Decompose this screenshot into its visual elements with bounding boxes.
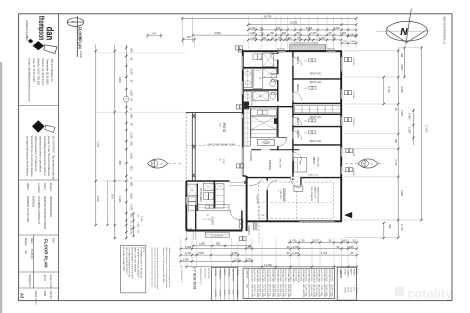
- wall bed4 master: [293, 144, 341, 146]
- svg-text:4,700: 4,700: [321, 252, 328, 255]
- svg-text:NEW RESIDENCE: NEW RESIDENCE: [49, 196, 52, 217]
- svg-text:1,790: 1,790: [290, 240, 297, 243]
- svg-text:A: A: [152, 162, 154, 166]
- wall dining kitchen: [251, 149, 300, 151]
- svg-text:Dimensions preferred to scale.: Dimensions preferred to scale. Builder t…: [156, 248, 159, 290]
- svg-text:P.O. W.M.: P.O. W.M.: [203, 219, 212, 221]
- wall wet rooms div 1: [243, 67, 278, 69]
- right chain line E: [421, 48, 423, 221]
- svg-text:4,360: 4,360: [96, 196, 98, 202]
- svg-text:@ A3: @ A3: [43, 275, 46, 282]
- svg-text:SHOWER HEADS, TOILETS & TAPS: SHOWER HEADS, TOILETS & TAPS: [131, 247, 134, 279]
- svg-text:700: 700: [270, 32, 275, 35]
- wall bed3 bed4: [293, 126, 341, 128]
- svg-text:900: 900: [282, 32, 287, 35]
- bottom extension lines: [180, 238, 182, 268]
- svg-text:ALUM SLIDING: ALUM SLIDING: [289, 269, 292, 282]
- wet room door arcs: [271, 54, 278, 61]
- exterior wall top: [242, 50, 342, 52]
- svg-text:Scale: 1:100: Scale: 1:100: [49, 275, 52, 290]
- titleblock logo big diamond: [33, 41, 44, 50]
- titleblock divider 2: [19, 179, 59, 181]
- svg-text:KITCHEN: KITCHEN: [262, 143, 271, 145]
- svg-text:P.O.: P.O.: [219, 123, 221, 127]
- note box: [121, 246, 146, 293]
- wing interior wall: [213, 181, 215, 209]
- svg-text:SPLIT A/C: SPLIT A/C: [316, 157, 319, 168]
- wing west wall window: [185, 197, 187, 205]
- svg-text:Phone: 07 4724 1214: Phone: 07 4724 1214: [41, 59, 45, 86]
- patio open edge double line: [191, 112, 193, 181]
- svg-text:2,090: 2,090: [199, 244, 205, 246]
- svg-text:12.72: 12.72: [223, 290, 225, 296]
- svg-text:ALUM SLIDING: ALUM SLIDING: [299, 269, 302, 282]
- svg-text:PORCH: PORCH: [352, 269, 354, 277]
- svg-text:130.35: 130.35: [344, 287, 346, 294]
- svg-text:1,190: 1,190: [130, 68, 133, 75]
- svg-text:(C) COPYRIGHT: This drawing re: (C) COPYRIGHT: This drawing remains the: [52, 136, 55, 181]
- door arc garage entry: [267, 180, 277, 190]
- svg-text:1506 SD OBS: 1506 SD OBS: [261, 269, 263, 283]
- svg-text:Project:: Project:: [49, 183, 52, 192]
- svg-text:reproduced in whole or part wi: reproduced in whole or part without: [38, 136, 41, 172]
- svg-text:GARAGE: GARAGE: [219, 269, 222, 279]
- svg-text:16.08.19: 16.08.19: [30, 249, 33, 259]
- svg-text:2,370: 2,370: [310, 32, 317, 35]
- svg-text:2,950: 2,950: [400, 110, 403, 117]
- house corner bump: [239, 49, 243, 52]
- svg-text:ENTRY: ENTRY: [255, 196, 259, 205]
- svg-text:1,430: 1,430: [118, 196, 121, 203]
- svg-text:ALFRESCO: ALFRESCO: [232, 269, 235, 281]
- svg-text:WIND CLASSIFICATION: C2: WIND CLASSIFICATION: C2: [443, 17, 447, 45]
- svg-text:900: 900: [262, 37, 267, 40]
- svg-text:3,930: 3,930: [214, 32, 221, 35]
- window schedule table: [243, 268, 334, 298]
- svg-text:1,000: 1,000: [350, 41, 356, 43]
- left chain bubble 13: [123, 96, 129, 102]
- svg-text:N: N: [400, 27, 408, 38]
- entry paving lines: [230, 182, 247, 184]
- door arc hall to living: [278, 138, 287, 147]
- svg-text:184.16: 184.16: [355, 287, 357, 294]
- svg-text:940: 940: [130, 48, 133, 53]
- svg-text:dimensions on site prior to co: dimensions on site prior to construction…: [153, 248, 156, 289]
- bedroom door arcs: [293, 57, 302, 65]
- titleblock divider 3: [19, 234, 59, 236]
- robe wardrobe band: [294, 106, 340, 113]
- svg-text:FLOORPLAN: FLOORPLAN: [78, 27, 83, 49]
- patio bottom wall: [186, 180, 229, 182]
- svg-text:A: A: [363, 162, 365, 166]
- svg-text:ALUM SLIDING: ALUM SLIDING: [274, 269, 277, 282]
- svg-text:6,100: 6,100: [293, 252, 300, 255]
- svg-text:1,370: 1,370: [187, 228, 193, 230]
- svg-text:2,600: 2,600: [197, 252, 204, 255]
- wall bed2 robes: [293, 102, 341, 104]
- svg-text:National Construction Code & r: National Construction Code & relevant Au…: [165, 248, 168, 289]
- top dimension chains: [182, 18, 356, 20]
- svg-text:ALUM SLIDING: ALUM SLIDING: [315, 269, 318, 282]
- patio outer dashed line: [185, 112, 187, 180]
- titleblock divider sub: [19, 271, 59, 273]
- svg-text:1:100: 1:100: [79, 50, 83, 58]
- svg-text:Standards. Termite protection: Standards. Termite protection to AS 3660…: [162, 248, 165, 285]
- svg-text:1: 1: [71, 21, 75, 23]
- svg-text:A3: A3: [20, 293, 25, 299]
- left chain overall: [95, 45, 97, 226]
- svg-text:any discrepancies to the desig: any discrepancies to the designer before…: [150, 248, 153, 288]
- wall wet rooms right: [277, 51, 279, 150]
- svg-text:GARAGE: GARAGE: [347, 269, 350, 278]
- svg-text:ALUM SLIDING: ALUM SLIDING: [258, 269, 261, 282]
- section marker right: [358, 159, 378, 168]
- svg-text:2,400: 2,400: [249, 27, 256, 30]
- wet room fixtures: [253, 54, 257, 60]
- svg-text:KITCHEN: KITCHEN: [199, 189, 203, 202]
- svg-text:Drawn:: Drawn:: [24, 238, 27, 246]
- svg-text:architecture & drafting: architecture & drafting: [25, 20, 28, 40]
- cotality watermark: [395, 286, 453, 301]
- exterior wall entry step: [243, 175, 246, 177]
- garage door motor box: [294, 186, 303, 191]
- svg-text:Client:: Client:: [43, 183, 46, 190]
- svg-text:All workmanship & materials to: All workmanship & materials to comply wi…: [168, 248, 171, 287]
- svg-text:SPLIT A/C: SPLIT A/C: [310, 140, 322, 143]
- exterior wall right: [340, 50, 342, 221]
- svg-text:3,000: 3,000: [222, 158, 224, 164]
- svg-text:QBCC:: QBCC:: [26, 183, 29, 191]
- left wall window tags: [236, 46, 239, 50]
- svg-text:13,930: 13,930: [290, 22, 298, 25]
- svg-text:PATIO: PATIO: [349, 269, 352, 275]
- window opening left upper: [242, 56, 244, 70]
- svg-text:MEDUSA CONSTRUCTIONS: MEDUSA CONSTRUCTIONS: [43, 196, 46, 229]
- clothesline hatched slab: [290, 45, 326, 51]
- master WIR: [294, 158, 307, 173]
- svg-text:BED 2: BED 2: [296, 57, 300, 65]
- svg-text:ALUM SLIDING: ALUM SLIDING: [330, 269, 333, 282]
- left chain line B: [125, 45, 127, 239]
- svg-text:& WEATHER STRIPPED. EXHAUST: & WEATHER STRIPPED. EXHAUST: [136, 247, 139, 279]
- svg-text:1,010: 1,010: [136, 222, 138, 228]
- svg-text:1806 SD OBS: 1806 SD OBS: [256, 269, 258, 283]
- right extension stubs: [344, 50, 400, 52]
- svg-text:1,540: 1,540: [130, 204, 133, 211]
- svg-text:Location:: Location:: [37, 183, 40, 193]
- svg-text:0906 AW: 0906 AW: [352, 149, 355, 157]
- wing window tags lower: [240, 220, 243, 224]
- svg-text:1,000: 1,000: [340, 32, 347, 35]
- svg-text:CLOTHESLINE BY OWNER: CLOTHESLINE BY OWNER: [290, 42, 318, 44]
- svg-text:STUDY: STUDY: [211, 217, 215, 226]
- svg-text:FANS TO BE SELF SEALING.: FANS TO BE SELF SEALING.: [134, 247, 137, 273]
- svg-text:property of Dan Thompson Archi: property of Dan Thompson Architecture: [47, 136, 50, 177]
- svg-text:ALUM SLIDING: ALUM SLIDING: [263, 269, 266, 282]
- garage dashed ceiling: [258, 182, 333, 219]
- svg-text:1,400: 1,400: [285, 37, 292, 40]
- wing steps: [205, 232, 229, 237]
- svg-text:2,440: 2,440: [140, 216, 142, 222]
- svg-text:1,110: 1,110: [233, 258, 240, 261]
- laundry inner wall: [196, 184, 198, 212]
- svg-text:890: 890: [118, 161, 121, 166]
- patio posts: [192, 114, 195, 118]
- svg-text:TOTAL: TOTAL: [236, 269, 239, 277]
- wall wet rooms div 2: [243, 89, 278, 91]
- titleblock logo small diamond: [28, 39, 33, 44]
- svg-text:6,000: 6,000: [293, 246, 300, 249]
- svg-text:LIVING: LIVING: [214, 269, 216, 276]
- left scan shadow edge: [0, 62, 2, 313]
- svg-text:cotality: cotality: [407, 286, 453, 301]
- svg-text:2,700: 2,700: [394, 159, 397, 166]
- north arrow: [376, 9, 430, 45]
- right chain line C: [397, 48, 399, 238]
- svg-text:15089634 LIC 1270340: 15089634 LIC 1270340: [26, 196, 29, 223]
- svg-text:use figured dimensions only at: use figured dimensions only at all times…: [25, 136, 28, 177]
- svg-text:12.72: 12.72: [349, 287, 351, 293]
- svg-text:Townsville QLD 4810: Townsville QLD 4810: [45, 59, 49, 86]
- svg-text:2440 CLG: 2440 CLG: [308, 175, 318, 177]
- svg-text:14,790: 14,790: [264, 16, 272, 19]
- svg-text:APPROVED: APPROVED: [207, 268, 210, 280]
- svg-text:1,430: 1,430: [110, 193, 112, 199]
- svg-text:2,530: 2,530: [118, 77, 121, 84]
- svg-text:GARAGE: GARAGE: [282, 188, 286, 202]
- svg-text:184.16: 184.16: [236, 290, 238, 297]
- svg-text:BED 1: BED 1: [312, 157, 316, 165]
- svg-text:PATIO: PATIO: [223, 269, 226, 276]
- wing extension stubs: [192, 231, 194, 240]
- top chain intermediate ticks: [255, 29, 257, 31]
- svg-text:LIVING: LIVING: [249, 151, 253, 162]
- svg-text:BURDELL: BURDELL: [32, 196, 35, 208]
- svg-text:2,530: 2,530: [400, 87, 403, 94]
- svg-text:SPLIT A/C: SPLIT A/C: [278, 158, 281, 169]
- areas table: [212, 267, 238, 300]
- top mini chain 930: [183, 39, 194, 41]
- window opening top 2: [327, 50, 336, 52]
- svg-text:Sheet: 2 of 7: Sheet: 2 of 7: [34, 291, 37, 306]
- svg-text:LOT 28535 # 6 BOLD ST: LOT 28535 # 6 BOLD ST: [37, 196, 40, 224]
- exterior wall left upper: [242, 50, 244, 107]
- svg-text:PORCH: PORCH: [227, 269, 229, 277]
- right chain short bottom: [383, 223, 385, 238]
- svg-text:ALUM SLIDING: ALUM SLIDING: [310, 269, 313, 282]
- patio bulkhead dashed: [186, 145, 242, 147]
- svg-text:2106 SD CLR: 2106 SD CLR: [251, 269, 253, 282]
- right chain line D: [404, 48, 406, 78]
- svg-text:900: 900: [261, 215, 264, 217]
- svg-text:SPLIT A/C: SPLIT A/C: [310, 81, 322, 84]
- left extension stubs: [96, 52, 186, 54]
- right wall window tags: [345, 58, 348, 62]
- svg-text:36.29: 36.29: [347, 287, 349, 293]
- titleblock logo ribbon swoosh: [44, 45, 57, 54]
- svg-text:EXTERNAL DOORS TO BE SEALED: EXTERNAL DOORS TO BE SEALED: [139, 247, 142, 279]
- svg-text:700: 700: [278, 37, 283, 40]
- laundry hatch box: [187, 184, 197, 196]
- svg-text:AREAS: AREAS: [339, 269, 342, 278]
- svg-text:written permission. All conten: written permission. All contents are: [34, 136, 37, 172]
- svg-text:ALUM SLIDING: ALUM SLIDING: [305, 269, 308, 282]
- svg-text:17,070: 17,070: [424, 125, 427, 133]
- svg-text:ALUM SLIDING: ALUM SLIDING: [294, 269, 297, 282]
- svg-text:LOT 28535 BOLD ST: LOT 28535 BOLD ST: [180, 265, 182, 284]
- drawing title underline: [76, 16, 78, 57]
- svg-text:LIVING: LIVING: [344, 269, 346, 276]
- svg-text:36.29: 36.29: [219, 290, 221, 296]
- left chain connector: [106, 180, 126, 182]
- exterior wall left mid: [242, 107, 244, 114]
- svg-text:14,790: 14,790: [264, 264, 272, 267]
- svg-text:SDO+REMOTE: SDO+REMOTE: [310, 187, 312, 202]
- svg-text:0906 AW: 0906 AW: [352, 58, 355, 66]
- svg-text:1206 AW: 1206 AW: [352, 91, 355, 99]
- titleblock divider 4: [19, 287, 59, 289]
- wing east wall: [241, 211, 243, 231]
- bottom chain intermediate ticks: [298, 241, 300, 243]
- svg-text:and Drafting and must not be c: and Drafting and must not be copied or: [43, 136, 46, 176]
- svg-text:1206 AW: 1206 AW: [352, 118, 355, 126]
- svg-text:PORCH: PORCH: [247, 225, 251, 234]
- kitchen benches and island: [243, 102, 249, 110]
- svg-text:TO COMPLY WITH MP 4.1 OF THE: TO COMPLY WITH MP 4.1 OF THE: [128, 247, 130, 278]
- patio top edge: [186, 111, 242, 113]
- wing bench: [198, 205, 229, 211]
- right chain short top: [383, 77, 385, 104]
- svg-text:ALUM SLIDING: ALUM SLIDING: [253, 269, 256, 282]
- svg-text:thompson: thompson: [37, 16, 46, 41]
- svg-text:Design:: Design:: [28, 275, 31, 284]
- wing door arc: [230, 212, 241, 220]
- svg-text:1,280: 1,280: [408, 127, 411, 134]
- svg-text:1506 AW: 1506 AW: [352, 168, 355, 176]
- exterior wall left porch: [246, 176, 248, 231]
- svg-text:940: 940: [130, 182, 133, 187]
- svg-text:0906: 0906: [43, 291, 46, 297]
- svg-text:GARAGE DOOR: GARAGE DOOR: [317, 187, 320, 203]
- title strip divider: [58, 14, 60, 301]
- svg-text:Email: dan@danthompson.com.au: Email: dan@danthompson.com.au: [27, 59, 31, 102]
- drawing title circle: [67, 18, 83, 27]
- svg-text:940: 940: [400, 53, 403, 58]
- interior door openings: [292, 57, 294, 66]
- svg-text:ALUM SLIDING: ALUM SLIDING: [320, 269, 323, 282]
- svg-text:2,650: 2,650: [400, 64, 403, 71]
- svg-text:BE SOLAR OR HEAT PUMP.: BE SOLAR OR HEAT PUMP.: [122, 247, 125, 272]
- left chain porch cluster: [133, 213, 135, 236]
- porch dashed roof line: [258, 206, 260, 245]
- wing top benches: [203, 183, 213, 190]
- svg-text:454 1/2 Stanley St: 454 1/2 Stanley St: [50, 59, 54, 82]
- svg-text:SL 41,860 FFL: SL 41,860 FFL: [211, 235, 223, 237]
- svg-text:ALUM SLIDING: ALUM SLIDING: [269, 269, 272, 282]
- svg-text:NOTE:: NOTE:: [142, 247, 144, 253]
- svg-text:PANEL LIFT: PANEL LIFT: [313, 187, 316, 199]
- svg-text:Date:: Date:: [30, 238, 33, 244]
- wall bedrooms left: [292, 51, 294, 180]
- right chain sub: [413, 109, 415, 145]
- exterior wall left living sliding door: [242, 114, 244, 176]
- left wall window opening mid: [242, 81, 244, 95]
- svg-text:1,440: 1,440: [408, 113, 411, 120]
- garage door opening bottom: [299, 221, 335, 223]
- svg-text:1,490: 1,490: [249, 32, 256, 35]
- exterior wall bottom: [248, 220, 342, 222]
- svg-text:600: 600: [130, 142, 133, 147]
- areas summary table right: [337, 267, 356, 300]
- svg-text:800: 800: [130, 166, 133, 171]
- svg-text:1,160: 1,160: [130, 132, 133, 139]
- mini chain 940: [148, 35, 162, 37]
- wing appliances: [204, 193, 209, 200]
- right wall window openings: [340, 57, 342, 72]
- svg-text:1,240: 1,240: [130, 153, 133, 160]
- svg-text:SPLIT A/C: SPLIT A/C: [310, 72, 322, 75]
- svg-text:TOWNSVILLE CC: TOWNSVILLE CC: [199, 267, 201, 285]
- svg-text:890: 890: [388, 225, 391, 230]
- wing pantry: [216, 184, 225, 209]
- svg-text:WINDOW: WINDOW: [246, 270, 248, 279]
- wing hall wall: [195, 205, 197, 231]
- svg-text:1,250: 1,250: [130, 90, 133, 97]
- svg-text:3,990: 3,990: [231, 252, 238, 255]
- wall bed1 bed2: [293, 78, 341, 80]
- svg-text:BED 5: BED 5: [296, 130, 300, 138]
- driveway triangle: [344, 212, 352, 218]
- top right mini chains: [342, 42, 357, 44]
- svg-text:1,700: 1,700: [400, 224, 403, 231]
- wall wet rooms bottom: [243, 106, 293, 108]
- svg-text:130.35: 130.35: [214, 290, 216, 297]
- wing west wall: [185, 181, 187, 231]
- svg-text:DINING: DINING: [268, 160, 272, 171]
- svg-text:1,600: 1,600: [130, 193, 133, 200]
- svg-text:2,070: 2,070: [313, 240, 320, 243]
- laundry appliances: [189, 197, 196, 201]
- svg-text:Mobile: 0417 745 497: Mobile: 0417 745 497: [36, 59, 40, 86]
- svg-text:440: 440: [394, 139, 397, 144]
- wall garage left: [266, 178, 268, 222]
- titleblock divider mid horizontal: [33, 235, 35, 288]
- svg-text:Fax: 07 4724 1216: Fax: 07 4724 1216: [32, 59, 36, 83]
- svg-text:4,280: 4,280: [400, 190, 403, 197]
- svg-text:700: 700: [296, 32, 301, 35]
- svg-text:600: 600: [130, 213, 133, 218]
- left chain line A: [114, 45, 116, 239]
- svg-text:ALUM SLIDING: ALUM SLIDING: [325, 269, 328, 282]
- svg-text:PATIO: PATIO: [222, 123, 226, 133]
- porch step stripes: [252, 221, 254, 230]
- svg-text:TOTAL: TOTAL: [355, 269, 358, 276]
- door arc entry: [249, 180, 261, 186]
- svg-text:2 7 AUG 2019: 2 7 AUG 2019: [193, 267, 197, 289]
- svg-text:5,000: 5,000: [96, 142, 98, 148]
- section marker left: [148, 159, 168, 168]
- top extension lines: [181, 17, 183, 44]
- svg-text:RECEIVED: RECEIVED: [204, 268, 206, 279]
- titleblock divider 1: [19, 105, 59, 107]
- window opening top 1: [277, 50, 286, 52]
- svg-text:P.S.: P.S.: [28, 283, 31, 288]
- wall robes bed3: [293, 113, 341, 115]
- svg-text:LINE OF BULKHEAD OVER: LINE OF BULKHEAD OVER: [207, 143, 235, 146]
- wall master garage top: [247, 177, 341, 179]
- svg-text:Title:: Title:: [52, 238, 55, 244]
- bottom dimension chains: [290, 241, 357, 243]
